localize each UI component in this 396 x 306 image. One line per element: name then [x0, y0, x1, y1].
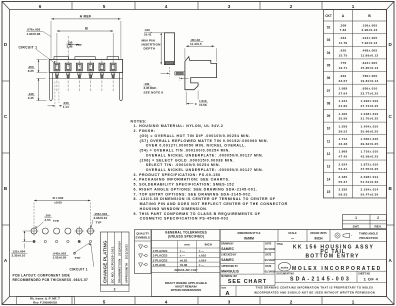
svg-text:3.96±0.13: 3.96±0.13 [362, 28, 378, 32]
svg-text:39.52: 39.52 [339, 129, 348, 133]
svg-text:1: 1 [355, 216, 357, 220]
svg-text:43.59±0.25: 43.59±0.25 [361, 155, 379, 159]
frame id box bottom-left [17, 297, 75, 305]
svg-text:1 OF 4: 1 OF 4 [364, 276, 379, 281]
svg-text:±0.58: ±0.58 [199, 103, 207, 107]
svg-text:(UNLESS SPECIFIED): (UNLESS SPECIFIED) [168, 235, 204, 239]
svg-text:THIRD ANGLE: THIRD ANGLE [359, 231, 378, 235]
svg-text:6: 6 [39, 4, 42, 9]
svg-text:.156±.005: .156±.005 [362, 23, 378, 27]
dim .156/3.96 TYP [68, 44, 79, 46]
svg-text:4: 4 [165, 4, 168, 9]
svg-text:3. PRODUCT SPECIFICATION: PS-0: 3. PRODUCT SPECIFICATION: PS-00-150 [131, 173, 221, 177]
svg-text:.624±.005: .624±.005 [362, 61, 378, 65]
svg-text:55.37: 55.37 [339, 180, 348, 184]
svg-text:SHEET NO: SHEET NO [358, 274, 370, 276]
svg-text:SIZE: SIZE [221, 288, 226, 290]
general tolerances block [152, 230, 221, 297]
front view: circuit windows [54, 63, 60, 71]
svg-text:THIS DRAWING CONTAINS INFORMAT: THIS DRAWING CONTAINS INFORMATION THAT I… [256, 285, 374, 289]
svg-text:7. TOP ENTRY OPTIONS: SEE DRAW: 7. TOP ENTRY OPTIONS: SEE DRAWING SDA-21… [131, 192, 253, 196]
pcb layout: small holes [33, 240, 35, 242]
svg-text:11.89±0.13: 11.89±0.13 [361, 53, 379, 57]
svg-text:11.4±0.5: 11.4±0.5 [190, 42, 202, 46]
svg-text:2 PLACES: 2 PLACES [153, 258, 168, 262]
svg-text:11: 11 [327, 139, 331, 143]
svg-text:.620: .620 [339, 49, 346, 53]
svg-text:(G0) = OVERALL HOT TIN DIP .00: (G0) = OVERALL HOT TIN DIP .000100/0.002… [131, 134, 251, 138]
ec change block vertical [101, 232, 130, 285]
svg-text:1.088: 1.088 [339, 87, 348, 91]
svg-text:6.35: 6.35 [28, 69, 34, 73]
svg-text:03: 03 [327, 38, 331, 42]
svg-text:.468±.005: .468±.005 [362, 49, 378, 53]
svg-text:15.75: 15.75 [339, 53, 348, 57]
title block [220, 230, 387, 297]
front view: housing body [49, 60, 122, 73]
svg-text:CHECKED BY: CHECKED BY [221, 255, 237, 257]
zone ticks [71, 2, 73, 10]
front view: bottom shelf line [49, 77, 122, 79]
svg-text:TYP: TYP [53, 219, 59, 223]
svg-text:23.67: 23.67 [339, 79, 348, 83]
svg-text:3.96±0.10: 3.96±0.10 [94, 216, 108, 220]
ckt table [324, 10, 387, 198]
svg-text:OVERALL NICKEL UNDERPLATE: .00: OVERALL NICKEL UNDERPLATE: .000050/0.001… [131, 168, 264, 172]
svg-text:47.55±0.25: 47.55±0.25 [361, 167, 379, 171]
svg-text:PCB LAYOUT: COMPONENT SIDE: PCB LAYOUT: COMPONENT SIDE [13, 273, 71, 277]
svg-text:5: 5 [103, 4, 106, 9]
svg-text:2: 2 [377, 216, 379, 220]
svg-text:MATING PIN AND DOES NOT REFLEC: MATING PIN AND DOES NOT REFLECT CENTER O… [131, 202, 288, 206]
svg-text:±.014: ±.014 [199, 258, 207, 262]
svg-text:OVER 0.00127/.000050 MIN. NICK: OVER 0.00127/.000050 MIN. NICKEL OVERALL… [131, 144, 247, 148]
svg-text:27.74±0.25: 27.74±0.25 [361, 104, 379, 108]
pcb layout: big holes [31, 228, 37, 234]
svg-text:1.872±.010: 1.872±.010 [361, 162, 379, 166]
svg-text:51.41: 51.41 [339, 167, 348, 171]
svg-text:3.96: 3.96 [67, 45, 73, 49]
svg-text:A REF: A REF [80, 14, 92, 18]
svg-text:05: 05 [327, 64, 331, 68]
signature rows [274, 242, 276, 286]
svg-text:3: 3 [228, 299, 231, 304]
svg-text:7.92±0.13: 7.92±0.13 [362, 41, 378, 45]
svg-text:1.716±.010: 1.716±.010 [361, 150, 379, 154]
svg-text:1 PLACE: 1 PLACE [153, 263, 166, 267]
svg-text:OVERALL NICKEL UNDERPLATE: .00: OVERALL NICKEL UNDERPLATE: .000050/0.001… [131, 153, 264, 157]
svg-text:DEPTH: DEPTH [144, 46, 156, 50]
svg-text:TYP: TYP [96, 221, 102, 225]
svg-text:4 PLACES: 4 PLACES [153, 249, 168, 253]
svg-text:1: 1 [352, 4, 355, 9]
svg-text:1.092±.010: 1.092±.010 [361, 99, 379, 103]
molex logo [278, 262, 290, 271]
svg-text:11.79: 11.79 [339, 41, 348, 45]
svg-text:RECOMMENDED PCB THICKNESS .063: RECOMMENDED PCB THICKNESS .063/1.57 [13, 278, 89, 282]
svg-text:9. THIS PART CONFORMS TO CLASS: 9. THIS PART CONFORMS TO CLASS B REQUIRE… [131, 212, 261, 216]
svg-text:55.47±0.36: 55.47±0.36 [361, 193, 379, 197]
front view: end legs [49, 73, 52, 101]
svg-text:59.33: 59.33 [339, 193, 348, 197]
svg-text:13: 13 [327, 165, 331, 169]
svg-text:NOTES:: NOTES: [131, 119, 148, 123]
svg-text:ANGULAR ±1/2°: ANGULAR ±1/2° [174, 268, 198, 272]
svg-text:(54) = OVERALL TIN .000100/0.0: (54) = OVERALL TIN .000100/0.00254 MIN. [131, 149, 231, 153]
svg-text:47.45: 47.45 [339, 155, 348, 159]
svg-text:5. SOLDERABILITY SPECIFICATION: 5. SOLDERABILITY SPECIFICATION: SMES-152 [131, 183, 235, 187]
dim .45±.02 [186, 45, 214, 47]
svg-text:06: 06 [327, 76, 331, 80]
side view: mating pin [164, 33, 174, 65]
svg-text:SHT.: SHT. [353, 225, 360, 229]
svg-text:1.248±.010: 1.248±.010 [361, 112, 379, 116]
svg-text:DRAWN/MGTSON 2012/09/14: DRAWN/MGTSON 2012/09/14 [117, 241, 121, 283]
third angle projection symbol [335, 233, 340, 238]
svg-text:CIRCUIT 1: CIRCUIT 1 [70, 267, 88, 271]
svg-text:1.404±.010: 1.404±.010 [361, 124, 379, 128]
svg-text:.312±.005: .312±.005 [362, 36, 378, 40]
svg-text:SYMBOLS: SYMBOLS [136, 236, 150, 240]
svg-text:1.712: 1.712 [339, 137, 348, 141]
svg-text:CKT: CKT [325, 14, 332, 18]
svg-text:09: 09 [327, 114, 331, 118]
svg-text:08: 08 [327, 101, 331, 105]
svg-text:2.180: 2.180 [339, 175, 348, 179]
svg-text:2: 2 [114, 287, 116, 291]
svg-text:.308: .308 [339, 23, 346, 27]
svg-text:4: 4 [165, 299, 168, 304]
svg-text:HOUSING WINDOW DIMENSION.: HOUSING WINDOW DIMENSION. [131, 207, 208, 211]
svg-text:Rev. F 2009/06/18: Rev. F 2009/06/18 [33, 300, 57, 304]
svg-text:DESIGN UNITS: DESIGN UNITS [310, 233, 327, 235]
svg-text:4. PACKAGING INFORMATION: SEE: 4. PACKAGING INFORMATION: SEE CHARTS. [131, 178, 231, 182]
svg-text:TYP: TYP [75, 256, 81, 260]
svg-text:PROJECTION: PROJECTION [359, 236, 377, 240]
side view: pc tail [175, 72, 185, 75]
svg-text:INCH: INCH [314, 237, 323, 241]
svg-text:1.560±.010: 1.560±.010 [361, 137, 379, 141]
svg-text:10.41: 10.41 [144, 32, 152, 36]
svg-text:2.54: 2.54 [45, 218, 51, 222]
svg-text:± ---: ± --- [180, 249, 185, 253]
svg-text:APPROVED BY: APPROVED BY [221, 265, 238, 268]
svg-text:43.48: 43.48 [339, 142, 348, 146]
svg-text:SEE CHART: SEE CHART [228, 279, 267, 285]
svg-text:14: 14 [327, 177, 331, 181]
dim C tail offset [185, 92, 187, 106]
svg-text:.936±.010: .936±.010 [362, 87, 378, 91]
svg-text:7.82: 7.82 [339, 28, 346, 32]
svg-text:TITLE: TITLE [277, 244, 284, 246]
svg-text:2: 2 [290, 299, 293, 304]
svg-text:DRAWN BY: DRAWN BY [221, 243, 234, 246]
svg-text:DATE: DATE [265, 243, 272, 246]
svg-text:DATE: DATE [265, 265, 272, 268]
svg-text:± ---: ± --- [180, 254, 185, 258]
svg-text:(S7) OVERALL REFLOWED MATTE TI: (S7) OVERALL REFLOWED MATTE TIN 0.00152/… [131, 139, 269, 143]
front view: top tabs [54, 57, 69, 60]
svg-text:±0.25: ±0.25 [180, 258, 188, 262]
svg-text:CHANGE PLATING: CHANGE PLATING [103, 240, 108, 283]
svg-text:27.64: 27.64 [339, 91, 348, 95]
svg-text:8. .132/3.35 DIMENSION IS CENT: 8. .132/3.35 DIMENSION IS CENTER OF TERM… [131, 197, 276, 201]
svg-text:1. HOUSING MATERIAL: NYLON, UL: 1. HOUSING MATERIAL: NYLON, UL 94V-2 [131, 124, 224, 128]
svg-text:01/14/93: 01/14/93 [265, 258, 276, 262]
svg-text:3.45: 3.45 [28, 96, 34, 100]
svg-text:19.81±0.13: 19.81±0.13 [361, 79, 379, 83]
svg-text:± ---: ± --- [199, 263, 204, 267]
svg-text:WITHIN DIMENSIONS: WITHIN DIMENSIONS [171, 288, 202, 292]
dim .410 min pin insertion depth [160, 33, 162, 65]
svg-text:mm: mm [184, 243, 190, 247]
svg-text:6. RIGHT ANGLE OPTIONS: SEE DR: 6. RIGHT ANGLE OPTIONS: SEE DRAWING SDA-… [131, 187, 258, 191]
svg-text:3: 3 [228, 4, 231, 9]
svg-text:15.85±0.13: 15.85±0.13 [361, 66, 379, 70]
svg-text:.932: .932 [339, 74, 346, 78]
svg-text:±0.36: ±0.36 [180, 263, 188, 267]
svg-text:SDA-2145-003: SDA-2145-003 [290, 277, 351, 283]
svg-text:(206) = SELECT GOLD .000015/0.: (206) = SELECT GOLD .000015/0.00038 MIN. [131, 158, 235, 162]
svg-text:B ±.002: B ±.002 [53, 196, 64, 200]
svg-text:± ---: ± --- [199, 249, 204, 253]
svg-text:1.556: 1.556 [339, 124, 348, 128]
svg-text:±.010: ±.010 [199, 254, 207, 258]
side view: housing profile [185, 57, 217, 90]
svg-text:04: 04 [327, 51, 331, 55]
dim A REF [51, 18, 120, 20]
svg-text:EC NO. UCP2020-1021: EC NO. UCP2020-1021 [110, 246, 114, 283]
svg-text:TYP: TYP [76, 43, 82, 47]
svg-text:SAM/EC: SAM/EC [221, 258, 234, 262]
svg-text:01/14/93: 01/14/93 [265, 269, 276, 273]
svg-text:APPR/GSMITH 2012/10/23: APPR/GSMITH 2012/10/23 [124, 244, 128, 283]
svg-text:5: 5 [103, 299, 106, 304]
svg-text:15: 15 [327, 190, 331, 194]
corner trim diagonals [2, 2, 10, 10]
svg-text:35.66±0.25: 35.66±0.25 [361, 129, 379, 133]
svg-text:SELECT TIN: .000100/0.00254 MI: SELECT TIN: .000100/0.00254 MIN. [131, 163, 221, 167]
svg-text:12: 12 [327, 152, 331, 156]
svg-text:1.244: 1.244 [339, 99, 348, 103]
front view: solder pins [55, 73, 58, 76]
svg-text:SCALE: SCALE [288, 232, 297, 235]
svg-text:INCH: INCH [205, 243, 212, 247]
svg-text:19.71: 19.71 [339, 66, 348, 70]
svg-text:SAM/EC: SAM/EC [221, 247, 234, 251]
svg-text:3 PLACES: 3 PLACES [153, 254, 168, 258]
svg-text:35.56: 35.56 [339, 117, 348, 121]
svg-text:COSMETIC SPECIFICATION PS-4549: COSMETIC SPECIFICATION PS-45499-002 [131, 217, 229, 221]
quality symbols box [135, 230, 152, 274]
svg-text:SEE NOTE 8: SEE NOTE 8 [144, 90, 164, 94]
svg-text:DOCUMENT NO: DOCUMENT NO [277, 274, 295, 276]
svg-text:02: 02 [327, 26, 331, 30]
svg-text:2.024: 2.024 [339, 162, 348, 166]
size + proprietary note [235, 286, 237, 297]
svg-text:1.93±0.08: 1.93±0.08 [27, 32, 41, 36]
svg-text:.780±.005: .780±.005 [362, 74, 378, 78]
svg-text:1.02±0.05: 1.02±0.05 [53, 256, 67, 260]
svg-text:31.60: 31.60 [339, 104, 348, 108]
svg-text:39.62±0.25: 39.62±0.25 [361, 142, 379, 146]
svg-text:BOTTOM ENTRY: BOTTOM ENTRY [305, 253, 359, 259]
svg-text:CIRCUIT 1: CIRCUIT 1 [19, 46, 38, 50]
svg-text:.464: .464 [339, 36, 346, 40]
pcb dim B [34, 200, 91, 202]
svg-text:molex: molex [281, 265, 289, 269]
svg-text:2.336: 2.336 [339, 188, 348, 192]
dim .132/3.35 see note 8 [169, 67, 171, 77]
svg-text:1.400: 1.400 [339, 112, 348, 116]
svg-text:3.35±0.10: 3.35±0.10 [12, 254, 26, 258]
svg-text:MARGULIS: MARGULIS [221, 269, 239, 273]
dim B [57, 30, 113, 32]
svg-text:1.868: 1.868 [339, 150, 348, 154]
front view: circuit centerlines [56, 61, 58, 93]
crosshairs [29, 230, 38, 232]
svg-text:INCORPORATED AND SHOULD NOT BE: INCORPORATED AND SHOULD NOT BE USED WITH… [254, 290, 375, 294]
svg-text:1.14: 1.14 [63, 105, 69, 109]
sheet/rev mini table [343, 215, 387, 229]
svg-text:51.51±0.36: 51.51±0.36 [361, 180, 379, 184]
svg-text:IN/MM: IN/MM [244, 237, 254, 241]
svg-text:07: 07 [327, 89, 331, 93]
svg-text:DATE: DATE [265, 254, 272, 257]
svg-text:1: 1 [352, 299, 355, 304]
svg-text:REV.: REV. [375, 225, 382, 229]
svg-text:01/14/93: 01/14/93 [265, 247, 276, 251]
svg-text:10: 10 [327, 127, 331, 131]
document no row [356, 271, 358, 282]
svg-text:.776: .776 [339, 61, 346, 65]
svg-text:MATERIAL NO: MATERIAL NO [221, 275, 237, 278]
svg-text:±0.05: ±0.05 [54, 201, 62, 205]
svg-text:---: --- [291, 236, 294, 240]
svg-text:2.184±.014: 2.184±.014 [361, 188, 379, 192]
svg-text:31.70±0.25: 31.70±0.25 [361, 117, 379, 121]
svg-text:23.77±0.25: 23.77±0.25 [361, 91, 379, 95]
svg-text:2. FINISH:: 2. FINISH: [131, 129, 156, 133]
svg-text:2: 2 [290, 4, 293, 9]
svg-text:DIMENSION STYLE: DIMENSION STYLE [238, 232, 261, 235]
svg-text:2.028±.014: 2.028±.014 [361, 175, 379, 179]
